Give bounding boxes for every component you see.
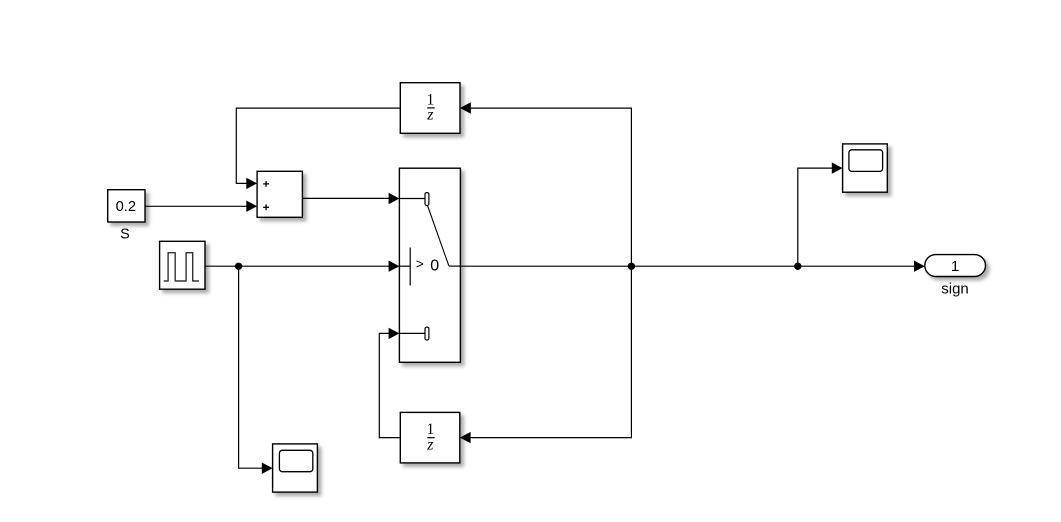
svg-text:1: 1 (951, 258, 959, 275)
input3 port marker (425, 327, 429, 340)
junction dot right (scope tap) (794, 263, 801, 270)
wire feedback up to UnitDelay-top input (460, 102, 631, 266)
wire branch down to Scope-bottom (239, 266, 273, 474)
output stub (449, 265, 461, 267)
wire Switch output -> Outport (460, 261, 924, 272)
switch block (399, 168, 460, 362)
svg-text:S: S (120, 227, 130, 243)
wire PulseGenerator output -> Switch input2 (205, 261, 400, 272)
junction dot on pulse wire (235, 263, 242, 270)
scope block bottom (273, 444, 318, 492)
threshold tick (409, 248, 411, 286)
unit delay top 1/z (400, 83, 460, 134)
input2 stub (399, 265, 410, 267)
input1 stub (399, 198, 426, 200)
wire Constant->Sum input2 (145, 201, 257, 212)
wire UnitDelay-top output -> Sum input1 (236, 108, 400, 189)
switch arm diagonal (428, 206, 449, 266)
svg-text:z: z (426, 436, 434, 453)
svg-text:0: 0 (430, 257, 439, 274)
wire Sum output -> Switch input1 (302, 193, 399, 204)
junction dot mid (feedback tap) (628, 263, 635, 270)
input1 port marker (425, 193, 429, 206)
scope block top (843, 144, 888, 192)
pulse generator block (160, 241, 205, 289)
outport block 1 (925, 255, 986, 277)
constant block S value 0.2 (108, 190, 145, 222)
svg-text:0.2: 0.2 (116, 199, 136, 215)
svg-text:z: z (426, 107, 434, 124)
wire branch up to Scope-top (798, 162, 843, 266)
unit delay bottom 1/z (400, 412, 460, 463)
svg-text:>: > (416, 257, 424, 272)
wire feedback down to UnitDelay-bottom input (460, 266, 632, 443)
wire UnitDelay-bottom output -> Switch input3 (379, 328, 400, 438)
input3 stub (399, 332, 426, 334)
svg-text:sign: sign (941, 281, 969, 298)
sum block (257, 171, 302, 217)
